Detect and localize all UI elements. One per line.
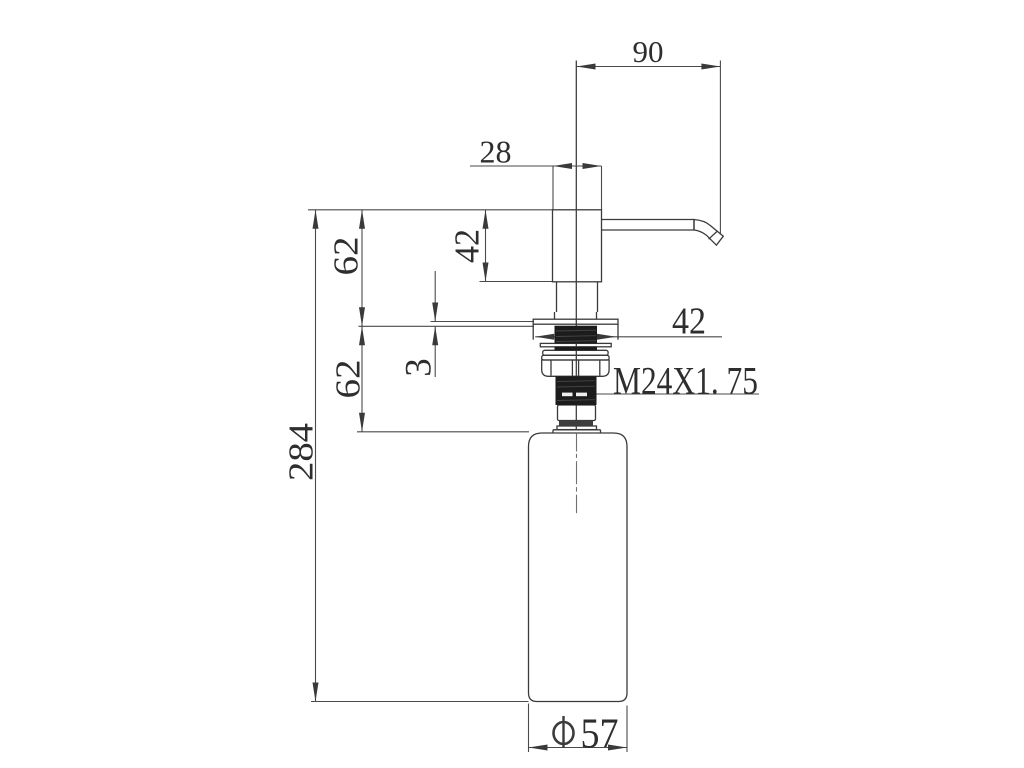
svg-text:M24X1. 75: M24X1. 75 [613, 359, 758, 402]
svg-text:62: 62 [327, 237, 366, 276]
svg-text:90: 90 [633, 34, 664, 69]
svg-text:57: 57 [581, 712, 619, 758]
svg-text:284: 284 [282, 423, 321, 481]
svg-text:28: 28 [480, 134, 512, 170]
svg-text:62: 62 [329, 360, 368, 399]
svg-text:3: 3 [399, 358, 440, 377]
svg-text:42: 42 [448, 229, 487, 263]
svg-text:42: 42 [672, 301, 706, 343]
